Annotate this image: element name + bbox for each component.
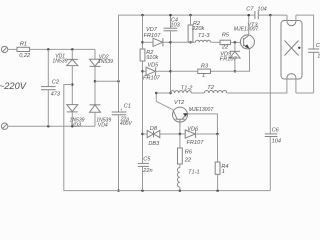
resistor R4 [215, 134, 220, 191]
svg-text:R5: R5 [222, 33, 230, 39]
diode VD2 [90, 59, 101, 105]
wire plus rail riser [119, 15, 143, 81]
lamp bottom filament [287, 74, 296, 93]
diac D8 [147, 130, 160, 137]
junction C2 bottom [47, 125, 50, 128]
junction VD9 top [234, 41, 237, 44]
resistor R5 [220, 40, 231, 44]
wire R5 to VT3 base [231, 41, 241, 43]
svg-text:VD3: VD3 [71, 122, 81, 128]
svg-text:C3: C3 [316, 43, 320, 49]
svg-text:C5: C5 [143, 157, 151, 163]
wire to diac [143, 133, 148, 135]
diode VD5 [146, 67, 171, 75]
svg-text:R3: R3 [201, 64, 209, 70]
resistor R1 [17, 47, 30, 51]
junction C4 column / VD7 line [169, 41, 172, 44]
terminal X1 (upper mains input) [1, 46, 7, 52]
resistor R6 [178, 134, 183, 168]
svg-text:R1: R1 [20, 42, 27, 48]
junction VD5 line [141, 70, 144, 73]
svg-text:400V: 400V [120, 121, 132, 127]
wire terminal X1 to R1 [8, 48, 17, 50]
svg-text:C2: C2 [52, 79, 60, 85]
junction rail / startup column [141, 189, 144, 192]
svg-text:1: 1 [222, 169, 225, 175]
diode VD3 [67, 105, 78, 127]
junction C4 column / VD5 line [169, 70, 172, 73]
winding T1-1 [177, 168, 179, 188]
wire C3 column to bottom-right pin [296, 92, 314, 94]
svg-text:VT2: VT2 [174, 100, 185, 106]
svg-text:T1-1: T1-1 [188, 170, 200, 176]
svg-text:103: 103 [170, 23, 180, 29]
svg-text:~220V: ~220V [0, 81, 27, 91]
svg-text:C6: C6 [272, 127, 280, 133]
resistor R2 220k [188, 15, 193, 42]
svg-text:R6: R6 [185, 150, 193, 156]
svg-text:D8: D8 [150, 126, 158, 132]
wire VD7 column upper [142, 15, 144, 49]
wire terminal X2 to bridge (AC2 line) [8, 125, 95, 127]
svg-text:473: 473 [51, 91, 61, 97]
svg-text:220k: 220k [191, 26, 205, 32]
svg-text:MJE13007: MJE13007 [189, 107, 214, 113]
diode VD6 [185, 130, 217, 138]
svg-text:22n: 22n [142, 168, 152, 174]
wire R3 to VD5 line [171, 70, 198, 72]
wire T1-1 to rail [179, 187, 181, 191]
junction R2 220k bottom [189, 41, 192, 44]
svg-text:T1-2: T1-2 [181, 86, 193, 92]
wire R1 to bridge (AC1 line) [30, 48, 95, 50]
wire VD7 anode stub [143, 41, 154, 43]
capacitor C1 [112, 81, 127, 190]
junction VD9 anode / emitter line [234, 70, 237, 73]
junction VT3 collector / top rail [247, 14, 250, 17]
svg-text:1: 1 [202, 73, 205, 79]
wire diac to VT2 base node [160, 133, 185, 135]
wire VT3 collector [248, 15, 250, 35]
capacitor C4 [164, 15, 178, 93]
junction VD7 line [141, 41, 144, 44]
wire midpoint to T1-2 [156, 92, 170, 94]
junction emitter column / diac line [216, 133, 219, 136]
svg-text:FR107: FR107 [187, 140, 205, 146]
svg-text:0,22: 0,22 [19, 53, 31, 59]
junction VT2 base lead [179, 133, 182, 136]
svg-text:104: 104 [257, 6, 266, 12]
junction rail / R4 [216, 189, 219, 192]
lamp dot mark [298, 47, 300, 49]
junction C4 column / midpoint line [169, 92, 172, 95]
wire VT2 base lead down [179, 122, 181, 134]
svg-text:DB3: DB3 [148, 141, 160, 147]
junction midpoint [155, 92, 158, 95]
junction C4 top [169, 14, 172, 17]
wire bridge minus tap to left column [64, 85, 73, 191]
wire VT2 emitter to R4 column [188, 114, 218, 134]
junction top rail / VD7 column [141, 14, 144, 17]
wire T2 to lamp lower-left pin [227, 78, 287, 93]
wire T1-3 to R5 [211, 41, 220, 43]
junction C1 bottom rail [117, 189, 120, 192]
junction VD3 bottom [71, 125, 74, 128]
svg-text:104: 104 [272, 139, 281, 145]
node bridge plus tap [94, 80, 97, 83]
svg-text:VD6: VD6 [187, 127, 199, 133]
diode VD7 [153, 38, 171, 46]
wire AC1 corner into VD2 column [94, 49, 96, 59]
lamp EL1 tube [281, 21, 302, 80]
junction C6 top [269, 14, 272, 17]
junction plus column [117, 80, 120, 83]
svg-text:22: 22 [184, 158, 192, 164]
svg-text:C7: C7 [246, 6, 254, 12]
svg-text:T2: T2 [207, 85, 214, 91]
wire bridge plus tap to C1 column [95, 80, 119, 82]
svg-text:MJE13007: MJE13007 [234, 27, 259, 33]
svg-text:1N539: 1N539 [98, 59, 113, 65]
capacitor C2 [41, 49, 56, 126]
svg-text:22: 22 [221, 45, 229, 51]
junction VD1 top [71, 48, 74, 51]
diode VD1 [67, 49, 78, 104]
capacitor C7 [255, 11, 287, 19]
resistor R3 [198, 69, 211, 73]
wire VD5 anode stub [143, 70, 147, 72]
diode VD9 [230, 42, 240, 71]
diode VD4 [90, 105, 101, 126]
svg-text:910k: 910k [146, 55, 159, 61]
winding T1-3 [195, 40, 210, 42]
terminal X2 (lower mains input) [1, 123, 7, 129]
wire VT3 emitter down [235, 49, 250, 72]
svg-text:VD4: VD4 [98, 122, 108, 128]
svg-text:1N539: 1N539 [52, 58, 67, 64]
winding T1-2 [171, 91, 192, 93]
capacitor C6 [265, 15, 278, 191]
resistor R2 910k [140, 49, 145, 163]
wire bottom rail [64, 190, 270, 192]
svg-text:T1-3: T1-3 [198, 33, 210, 39]
transistor VT3 [240, 35, 254, 49]
junction C2 top [47, 48, 50, 51]
junction R2 220k top [189, 14, 192, 17]
svg-text:VD5: VD5 [147, 62, 159, 68]
wire top rail (left part) [143, 14, 255, 16]
svg-text:+: + [120, 107, 123, 112]
transistor VT2 [173, 107, 188, 126]
junction rail / T1-1 [179, 189, 182, 192]
wire T1-2 to T2 [191, 92, 204, 94]
wire emitter line through R3 [211, 70, 235, 72]
winding T2 [204, 91, 226, 94]
junction startup column / diac line [141, 133, 144, 136]
svg-text:FR107: FR107 [143, 75, 161, 81]
svg-text:FR107: FR107 [220, 57, 238, 63]
wire VD7 line to T1-3 [171, 41, 196, 43]
svg-text:FR107: FR107 [144, 33, 162, 39]
capacitor C3 [308, 49, 319, 93]
lamp cross mark [285, 41, 299, 56]
lamp top filament [287, 15, 296, 26]
node bridge minus tap [71, 83, 74, 86]
wire top-right pin to C3 column [296, 15, 314, 49]
wire VT2 collector link [156, 93, 172, 110]
capacitor C5 [138, 163, 149, 190]
svg-text:C1: C1 [124, 104, 131, 110]
